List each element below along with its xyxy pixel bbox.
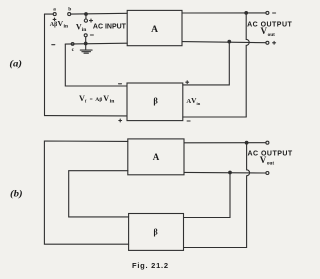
wire A output bottom (b) [184, 171, 266, 174]
polarity plus below terminal a [53, 18, 56, 21]
feedback block beta (a) [127, 83, 183, 121]
wire outer loop (b) [44, 141, 128, 244]
wire left rail vertical (a) [44, 14, 46, 116]
wire bottom rail (a) to beta box [45, 115, 128, 117]
svg-text:a: a [53, 7, 56, 13]
node junction top output (b) [245, 141, 248, 144]
svg-text:(a): (a) [9, 59, 22, 69]
svg-text:Vf=AβVin: Vf=AβVin [79, 94, 115, 105]
polarity minus at beta left top [119, 83, 122, 85]
polarity plus at beta right top [186, 81, 189, 84]
terminal b [68, 13, 71, 16]
terminal output bottom (b) [266, 172, 269, 175]
terminal output plus (a) [266, 41, 269, 44]
svg-text:A: A [151, 25, 158, 35]
svg-text:AC OUTPUT: AC OUTPUT [248, 151, 293, 158]
op-amp block A (b) [128, 139, 184, 175]
polarity plus near Vin [90, 19, 93, 22]
wire stub to Vin plus terminal [85, 14, 87, 19]
wire b to amplifier A input [71, 12, 127, 15]
node junction bottom output (b) [229, 171, 232, 174]
svg-text:(b): (b) [10, 188, 23, 198]
op-amp block A (a) [127, 10, 182, 45]
svg-text:Vin: Vin [76, 22, 87, 33]
wire beta top-right (a) [183, 42, 230, 85]
ground [80, 44, 92, 54]
polarity plus at beta left bottom [119, 119, 122, 122]
polarity minus near Vin lower [90, 34, 93, 36]
svg-text:Fig. 21.2: Fig. 21.2 [132, 261, 169, 270]
svg-text:A: A [153, 152, 160, 162]
terminal Vin minus [84, 34, 87, 37]
wire inner loop (b) [69, 171, 129, 217]
node junction on top input wire [85, 13, 88, 16]
terminal output top (b) [266, 141, 269, 144]
svg-text:β: β [153, 95, 158, 105]
terminal c [71, 43, 74, 46]
svg-text:c: c [72, 47, 75, 53]
svg-text:AβVin: AβVin [50, 19, 68, 30]
wire stub Vin minus to lower wire [85, 37, 87, 44]
polarity minus at output top (a) [273, 12, 276, 14]
feedback block beta (b) [129, 214, 184, 251]
wire lower input to A [65, 42, 127, 45]
svg-text:AC INPUT: AC INPUT [93, 23, 127, 30]
wire beta top-right (b) [184, 173, 231, 218]
svg-text:β: β [153, 228, 157, 237]
svg-text:b: b [68, 7, 71, 13]
svg-text:AC OUTPUT: AC OUTPUT [247, 21, 292, 28]
svg-text:AVin: AVin [186, 96, 200, 106]
polarity plus at output bottom (a) [273, 41, 276, 44]
terminal output minus (a) [266, 11, 269, 14]
node ground junction [84, 42, 87, 45]
wire feedback right vertical with hop (b) [247, 143, 250, 248]
wire feedback right vertical with hop (a) [246, 13, 249, 117]
node junction top output [245, 12, 248, 15]
wire beta bottom-right (a) [183, 116, 246, 118]
wire A output bottom [182, 42, 266, 43]
wire A output top [182, 12, 266, 14]
terminal a [53, 13, 56, 16]
wire c down to beta input [65, 44, 127, 86]
wire terminal a to left rail [45, 13, 54, 15]
polarity minus at left rail [52, 44, 55, 46]
node junction bottom output [228, 40, 231, 43]
polarity minus at beta right bottom [187, 120, 190, 122]
terminal Vin plus [84, 19, 87, 22]
wire beta bottom-right (b) [184, 247, 247, 249]
wire A output top (b) [184, 142, 266, 144]
